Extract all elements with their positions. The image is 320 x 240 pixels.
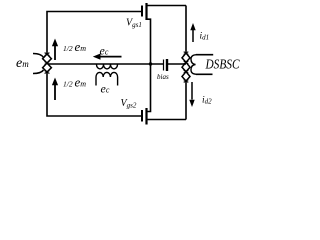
svg-text:Vgs1: Vgs1 [126, 18, 142, 30]
svg-text:bias: bias [157, 73, 169, 81]
svg-text:id2: id2 [202, 96, 212, 106]
svg-text:id1: id1 [200, 32, 210, 42]
svg-text:Vgs2: Vgs2 [121, 98, 137, 110]
svg-text:ec: ec [100, 44, 109, 58]
svg-text:em: em [16, 56, 29, 71]
svg-text:1/2 em: 1/2 em [63, 39, 86, 54]
svg-text:DSBSC: DSBSC [205, 57, 241, 72]
svg-text:ec: ec [101, 82, 110, 96]
svg-text:1/2 em: 1/2 em [63, 75, 86, 90]
